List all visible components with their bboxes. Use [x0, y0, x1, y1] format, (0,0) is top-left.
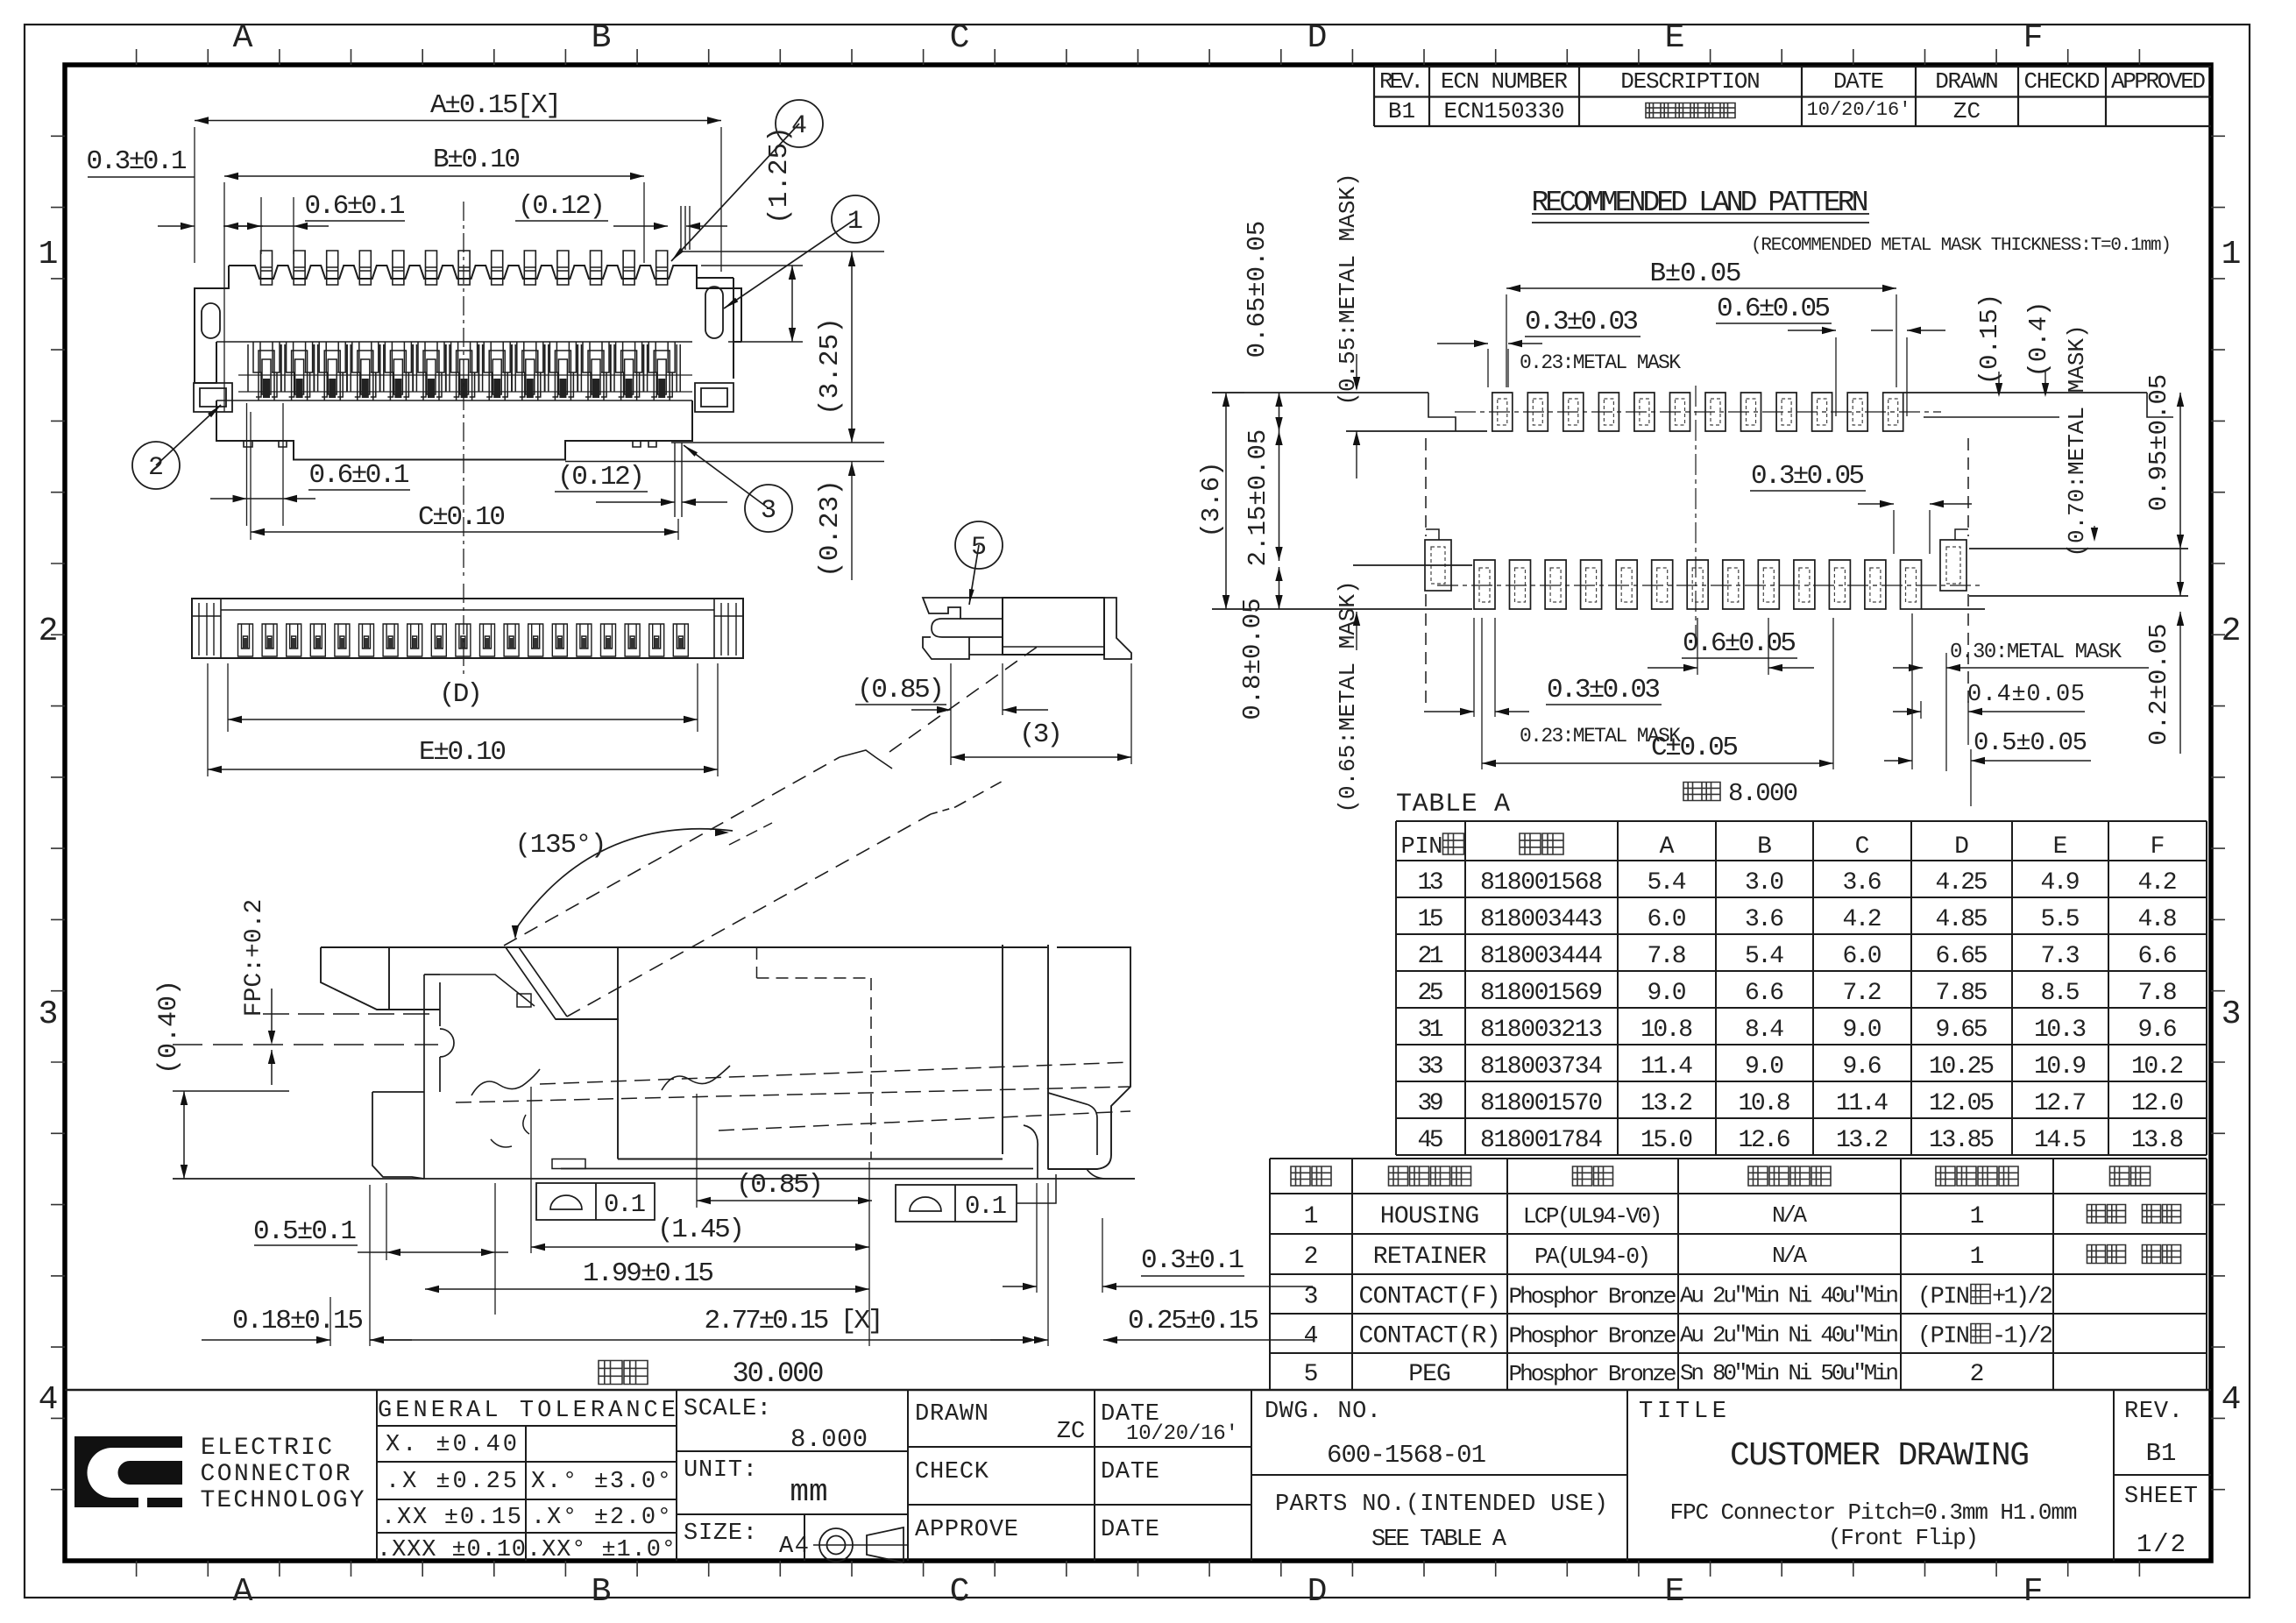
svg-text:(RECOMMENDED METAL MASK THICKN: (RECOMMENDED METAL MASK THICKNESS:T=0.1m…: [1751, 236, 2172, 256]
dim (3.25): [851, 252, 853, 443]
svg-text:E: E: [2053, 833, 2068, 861]
svg-text:A: A: [233, 19, 253, 57]
svg-text:(0.85): (0.85): [857, 675, 945, 705]
svg-text:6.0: 6.0: [1843, 943, 1882, 970]
section latch nub: [517, 994, 531, 1007]
svg-text:10.9: 10.9: [2034, 1053, 2087, 1081]
svg-text:REV.: REV.: [2124, 1399, 2183, 1425]
view2 teeth row: [238, 624, 689, 656]
dim A±0.15[X]: [195, 120, 721, 122]
dim (0.23): [671, 442, 884, 443]
svg-text:0.25±0.15: 0.25±0.15: [1128, 1306, 1259, 1336]
parts header 半品名称: [1389, 1166, 1471, 1186]
section nose block: [372, 1092, 424, 1179]
view3 left bottom: [923, 637, 1003, 659]
svg-text:REV.: REV.: [1379, 68, 1424, 95]
view1 right retainer lug: [695, 383, 733, 412]
svg-text:DESCRIPTION: DESCRIPTION: [1620, 68, 1761, 95]
svg-text:7.8: 7.8: [2138, 980, 2178, 1007]
third angle projection symbol: [819, 1528, 853, 1562]
svg-text:APPROVED: APPROVED: [2111, 68, 2206, 95]
svg-text:4.25: 4.25: [1936, 869, 1988, 897]
svg-text:9.6: 9.6: [1843, 1053, 1882, 1081]
svg-text:9.65: 9.65: [1936, 1017, 1988, 1044]
svg-text:C: C: [950, 19, 970, 57]
svg-text:0.5±0.1: 0.5±0.1: [253, 1216, 357, 1247]
svg-text:1: 1: [1970, 1244, 1985, 1271]
svg-text:E±0.10: E±0.10: [419, 737, 507, 768]
svg-text:CHECK: CHECK: [915, 1459, 989, 1485]
svg-text:4: 4: [39, 1381, 59, 1419]
svg-text:5.4: 5.4: [1648, 869, 1687, 897]
section rear foot: [1087, 1169, 1135, 1179]
view1 right oval slot: [705, 287, 723, 338]
svg-text:6.6: 6.6: [1745, 980, 1784, 1007]
feature frame 2: [896, 1185, 1017, 1222]
svg-text:.X° ±2.0°: .X° ±2.0°: [531, 1505, 671, 1531]
svg-text:10.25: 10.25: [1929, 1053, 1995, 1081]
parts header 标号: [1291, 1166, 1331, 1186]
svg-text:DRAWN: DRAWN: [915, 1401, 989, 1428]
svg-text:(3.6): (3.6): [1197, 461, 1226, 537]
svg-text:D: D: [1307, 1573, 1328, 1611]
svg-text:0.6±0.1: 0.6±0.1: [305, 191, 406, 222]
svg-text:DATE: DATE: [1833, 68, 1884, 95]
svg-text:9.6: 9.6: [2138, 1017, 2178, 1044]
svg-text:RETAINER: RETAINER: [1373, 1244, 1487, 1271]
svg-text:3.0: 3.0: [1745, 869, 1784, 897]
svg-text:SIZE:: SIZE:: [684, 1520, 757, 1547]
svg-text:C: C: [1855, 833, 1870, 861]
svg-text:0.95±0.05: 0.95±0.05: [2144, 374, 2173, 512]
svg-text:0.8±0.05: 0.8±0.05: [1238, 598, 1267, 719]
(135°) arc leader: [517, 829, 733, 927]
view2 teeth dark centers: [244, 638, 248, 648]
svg-text:2: 2: [39, 613, 59, 650]
svg-text:LCP(UL94-V0): LCP(UL94-V0): [1523, 1203, 1663, 1230]
svg-text:(3): (3): [1019, 719, 1063, 750]
land pattern housing dashed outline: [1425, 438, 1427, 536]
view2 inner top line: [221, 609, 714, 611]
svg-text:0.3±0.05: 0.3±0.05: [1751, 461, 1865, 492]
svg-text:ECN150330: ECN150330: [1444, 98, 1565, 124]
view2 bottom edge: [192, 657, 743, 659]
svg-text:(3.25): (3.25): [815, 317, 846, 415]
svg-text:+1)/2: +1)/2: [1992, 1285, 2053, 1311]
svg-text:N/A: N/A: [1772, 1243, 1807, 1269]
svg-text:8.5: 8.5: [2041, 980, 2080, 1007]
svg-text:CONTACT(R): CONTACT(R): [1359, 1323, 1501, 1350]
svg-text:818003734: 818003734: [1480, 1053, 1603, 1081]
svg-text:0.6±0.05: 0.6±0.05: [1683, 628, 1796, 659]
drawn/check/approve cells: [1094, 1390, 1095, 1561]
svg-text:B: B: [592, 1573, 612, 1611]
svg-text:Phosphor Bronze: Phosphor Bronze: [1509, 1284, 1677, 1310]
view1 contact dark tips: [263, 379, 270, 398]
land pattern centerlines: [1455, 411, 1941, 413]
dim B±0.10: [224, 175, 644, 177]
svg-text:TABLE A: TABLE A: [1396, 790, 1510, 819]
svg-text:4.8: 4.8: [2138, 906, 2178, 933]
svg-text:8.4: 8.4: [1745, 1017, 1784, 1044]
svg-text:10/20/16': 10/20/16': [1126, 1422, 1238, 1446]
svg-text:8.000: 8.000: [1728, 779, 1798, 808]
section fpc dashed flat: [173, 1044, 438, 1045]
svg-text:13: 13: [1418, 869, 1444, 897]
svg-text:818001784: 818001784: [1480, 1127, 1603, 1154]
svg-text:.XXX ±0.10: .XXX ±0.10: [377, 1537, 526, 1563]
parts list table: [1270, 1158, 2207, 1159]
view3 left hook: [932, 619, 1003, 637]
svg-text:0.65±0.05: 0.65±0.05: [1243, 221, 1272, 358]
svg-text:SHEET: SHEET: [2124, 1484, 2198, 1510]
svg-text:13.85: 13.85: [1929, 1127, 1995, 1154]
svg-text:DRAWN: DRAWN: [1935, 68, 1999, 95]
svg-text:2: 2: [148, 453, 164, 483]
parts header 备注: [2110, 1166, 2151, 1186]
svg-text:0.3±0.1: 0.3±0.1: [87, 146, 188, 177]
svg-text:13.8: 13.8: [2131, 1127, 2184, 1154]
svg-text:0.5±0.05: 0.5±0.05: [1974, 728, 2087, 757]
view1 contact comb: [216, 342, 692, 400]
svg-text:ZC: ZC: [1953, 98, 1981, 124]
svg-text:1: 1: [2222, 236, 2242, 273]
svg-text:10.8: 10.8: [1641, 1017, 1693, 1044]
land pattern body edge lines: [1212, 392, 1428, 393]
svg-text:0.4±0.05: 0.4±0.05: [1967, 682, 2085, 708]
svg-text:1: 1: [1304, 1203, 1319, 1230]
svg-text:Sn 80"Min Ni 50u"Min: Sn 80"Min Ni 50u"Min: [1680, 1360, 1899, 1386]
view2 left cap lines: [199, 603, 214, 656]
title cell: [2113, 1390, 2115, 1561]
svg-text:21: 21: [1418, 943, 1444, 970]
svg-text:.XX ±0.15: .XX ±0.15: [381, 1505, 521, 1531]
svg-text:CONTACT(F): CONTACT(F): [1359, 1284, 1501, 1311]
section rear jaw: [1048, 1093, 1097, 1155]
svg-text:B1: B1: [1388, 98, 1415, 124]
svg-text:SCALE:: SCALE:: [684, 1396, 771, 1422]
section bottom lip: [552, 1159, 585, 1169]
svg-text:1: 1: [847, 207, 863, 237]
svg-text:DATE: DATE: [1101, 1517, 1159, 1543]
section actuator lever: [321, 947, 1047, 1010]
svg-text:31: 31: [1418, 1017, 1444, 1044]
svg-text:2: 2: [1970, 1361, 1985, 1388]
svg-text:0.23:METAL MASK: 0.23:METAL MASK: [1520, 351, 1681, 374]
svg-text:0.18±0.15: 0.18±0.15: [232, 1306, 364, 1336]
land pattern anchor pads: [1425, 540, 1451, 591]
svg-text:1: 1: [39, 236, 59, 273]
svg-text:E: E: [1665, 19, 1685, 57]
table A header 料号: [1520, 833, 1563, 854]
view1 feet tabs: [244, 441, 656, 447]
svg-text:F: F: [2023, 19, 2044, 57]
svg-text:5.5: 5.5: [2041, 906, 2080, 933]
svg-text:10.8: 10.8: [1739, 1090, 1791, 1117]
svg-text:3.6: 3.6: [1745, 906, 1784, 933]
svg-text:mm: mm: [790, 1474, 827, 1510]
land pattern lower pads: [1474, 560, 1922, 609]
svg-text:F: F: [2151, 833, 2165, 861]
svg-text:0.3±0.03: 0.3±0.03: [1547, 675, 1661, 705]
svg-text:9.0: 9.0: [1648, 980, 1687, 1007]
svg-text:11.4: 11.4: [1836, 1090, 1889, 1117]
view2 right cap lines: [721, 603, 736, 656]
balloon 5: [969, 545, 979, 605]
section rear dashed internals: [756, 947, 758, 978]
svg-text:2: 2: [2222, 613, 2242, 650]
svg-text:(1.25): (1.25): [764, 126, 795, 224]
land pattern upper pads: [1492, 393, 1903, 431]
svg-text:TECHNOLOGY: TECHNOLOGY: [201, 1487, 365, 1514]
svg-text:PIN: PIN: [1401, 834, 1443, 861]
svg-text:X.° ±3.0°: X.° ±3.0°: [531, 1469, 671, 1495]
svg-text:6.6: 6.6: [2138, 943, 2178, 970]
svg-text:CUSTOMER DRAWING: CUSTOMER DRAWING: [1730, 1437, 2030, 1475]
svg-text:(0.4): (0.4): [2024, 301, 2053, 377]
section spring tip 2: [662, 1066, 730, 1090]
dim (1.25): [678, 251, 884, 252]
svg-text:(0.40): (0.40): [154, 980, 184, 1074]
svg-text:(135°): (135°): [515, 830, 607, 861]
svg-text:0.1: 0.1: [965, 1192, 1007, 1221]
view1 terminals row: [261, 251, 668, 285]
svg-text:9.0: 9.0: [1745, 1053, 1784, 1081]
svg-text:30.000: 30.000: [733, 1357, 825, 1390]
svg-text:TITLE: TITLE: [1639, 1399, 1726, 1425]
section spring tip 1: [471, 1069, 540, 1095]
svg-text:3: 3: [761, 496, 776, 526]
svg-text:PA(UL94-0): PA(UL94-0): [1534, 1244, 1651, 1270]
svg-text:A: A: [1660, 833, 1675, 861]
svg-text:B: B: [592, 19, 612, 57]
svg-text:FPC Connector Pitch=0.3mm H1.0: FPC Connector Pitch=0.3mm H1.0mm: [1670, 1499, 2078, 1526]
svg-text:C: C: [950, 1573, 970, 1611]
dwg no / parts no cells: [1626, 1390, 1628, 1561]
svg-text:C±0.10: C±0.10: [418, 502, 506, 533]
view1 left oval slot: [202, 303, 220, 338]
svg-text:818001569: 818001569: [1480, 980, 1603, 1007]
(0.12) triple ticks: [681, 206, 690, 250]
view1 top edge: [229, 266, 733, 279]
svg-text:0.3±0.03: 0.3±0.03: [1525, 307, 1639, 337]
svg-text:3: 3: [1304, 1284, 1319, 1311]
svg-text:DWG. NO.: DWG. NO.: [1265, 1399, 1381, 1425]
svg-text:C±0.05: C±0.05: [1651, 733, 1739, 763]
svg-text:APPROVE: APPROVE: [915, 1517, 1018, 1543]
svg-text:0.6±0.1: 0.6±0.1: [309, 460, 410, 491]
svg-text:4.2: 4.2: [2138, 869, 2178, 897]
view1 centerline: [463, 202, 464, 578]
dim C±0.10: [251, 531, 678, 533]
svg-text:B±0.05: B±0.05: [1650, 259, 1742, 289]
section housing channel: [424, 975, 454, 1179]
svg-text:E: E: [1665, 1573, 1685, 1611]
view3 left top latch: [923, 598, 1003, 619]
svg-text:(0.85): (0.85): [736, 1170, 824, 1201]
svg-text:8.000: 8.000: [790, 1425, 868, 1454]
svg-text:1: 1: [1970, 1203, 1985, 1230]
svg-text:818003213: 818003213: [1480, 1017, 1603, 1044]
svg-text:DATE: DATE: [1101, 1459, 1159, 1485]
view1 right ear: [697, 278, 741, 379]
section rear cover piece: [1047, 945, 1049, 1170]
view1 left retainer lug: [194, 383, 232, 412]
svg-text:ZC: ZC: [1057, 1419, 1085, 1445]
view2 centerline: [463, 584, 464, 675]
svg-text:A: A: [233, 1573, 253, 1611]
svg-text:11.4: 11.4: [1641, 1053, 1693, 1081]
balloon 2: [156, 405, 221, 465]
svg-text:1.99±0.15: 1.99±0.15: [583, 1258, 714, 1289]
svg-text:12.6: 12.6: [1739, 1127, 1791, 1154]
svg-text:(0.12): (0.12): [557, 462, 645, 493]
svg-text:2: 2: [1304, 1244, 1319, 1271]
svg-text:0.6±0.05: 0.6±0.05: [1717, 294, 1831, 324]
label 比例 30.000: [599, 1361, 648, 1385]
view1 left ear: [195, 266, 229, 383]
svg-text:6.65: 6.65: [1936, 943, 1988, 970]
section rear cavity block: [556, 947, 618, 1159]
svg-text:818003444: 818003444: [1480, 943, 1603, 970]
general tolerance table: [376, 1390, 378, 1561]
view3 right foot: [1104, 598, 1131, 659]
section spring lower: [491, 1115, 529, 1147]
svg-text:14.5: 14.5: [2034, 1127, 2087, 1154]
section fpc ribbon end: [840, 750, 892, 769]
svg-text:N/A: N/A: [1772, 1202, 1807, 1229]
parts header 表面处理: [1748, 1166, 1831, 1186]
svg-text:HOUSING: HOUSING: [1380, 1203, 1479, 1230]
svg-text:5: 5: [971, 533, 987, 563]
svg-text:2.15±0.05: 2.15±0.05: [1244, 429, 1272, 567]
parts header 使用数量: [1936, 1166, 2018, 1186]
svg-text:3.6: 3.6: [1843, 869, 1882, 897]
company logo ECT: [74, 1436, 182, 1507]
svg-text:4: 4: [2222, 1381, 2242, 1419]
svg-text:Au 2u"Min Ni 40u"Min: Au 2u"Min Ni 40u"Min: [1680, 1283, 1899, 1309]
svg-text:2.77±0.15 [X]: 2.77±0.15 [X]: [705, 1306, 884, 1336]
svg-text:(0.70:METAL MASK): (0.70:METAL MASK): [2064, 324, 2090, 556]
svg-text:13.2: 13.2: [1836, 1127, 1889, 1154]
section FPC raised dashed lines: [504, 757, 840, 946]
svg-text:(Front Flip): (Front Flip): [1828, 1525, 1979, 1551]
svg-text:33: 33: [1418, 1053, 1444, 1081]
svg-text:4.85: 4.85: [1936, 906, 1988, 933]
revision table: [1374, 66, 2211, 67]
scale unit size cells: [907, 1390, 909, 1561]
svg-text:Au 2u"Min Ni 40u"Min: Au 2u"Min Ni 40u"Min: [1680, 1322, 1899, 1349]
parts header 材质: [1573, 1166, 1613, 1186]
svg-text:GENERAL TOLERANCE: GENERAL TOLERANCE: [378, 1398, 676, 1424]
svg-text:12.0: 12.0: [2131, 1090, 2184, 1117]
svg-text:15.0: 15.0: [1641, 1127, 1693, 1154]
svg-text:(PIN: (PIN: [1917, 1285, 1970, 1311]
svg-text:3: 3: [39, 996, 59, 1033]
svg-text:5.4: 5.4: [1745, 943, 1784, 970]
svg-text:(0.15): (0.15): [1975, 294, 2004, 385]
svg-text:39: 39: [1418, 1090, 1444, 1117]
svg-text:0.2±0.05: 0.2±0.05: [2144, 623, 2173, 745]
svg-text:10.3: 10.3: [2034, 1017, 2087, 1044]
svg-text:Phosphor Bronze: Phosphor Bronze: [1509, 1323, 1677, 1350]
svg-text:7.2: 7.2: [1843, 980, 1882, 1007]
svg-text:D: D: [1307, 19, 1328, 57]
svg-text:FPC:+0.2: FPC:+0.2: [241, 899, 268, 1017]
svg-text:UNIT:: UNIT:: [684, 1457, 757, 1484]
svg-text:12.05: 12.05: [1929, 1090, 1995, 1117]
svg-text:PEG: PEG: [1408, 1361, 1451, 1388]
view3 main block: [1003, 598, 1104, 655]
balloon 4: [671, 124, 799, 261]
section pcb baseline: [173, 1178, 1135, 1180]
table A: [1396, 820, 2207, 822]
svg-text:F: F: [2023, 1573, 2044, 1611]
section actuator chamfer: [506, 947, 619, 1019]
section contact J hook: [1024, 1125, 1038, 1179]
svg-text:12.7: 12.7: [2034, 1090, 2087, 1117]
svg-text:818001568: 818001568: [1480, 869, 1603, 897]
section actuator gap line: [440, 975, 535, 1006]
view2 body: [192, 599, 743, 658]
svg-text:0.1: 0.1: [604, 1190, 646, 1219]
svg-text:6.0: 6.0: [1648, 906, 1687, 933]
svg-text:5: 5: [1304, 1361, 1319, 1388]
svg-text:4.9: 4.9: [2041, 869, 2080, 897]
svg-text:3: 3: [2222, 996, 2242, 1033]
svg-text:B: B: [1757, 833, 1772, 861]
label 比例 8.000: [1683, 783, 1720, 801]
svg-text:B1: B1: [2146, 1439, 2177, 1468]
svg-text:4: 4: [1304, 1323, 1319, 1350]
svg-text:-1)/2: -1)/2: [1992, 1324, 2053, 1350]
revision description 图纸标注更新: [1646, 103, 1735, 118]
svg-text:ECN NUMBER: ECN NUMBER: [1441, 68, 1568, 95]
svg-text:.XX° ±1.0°: .XX° ±1.0°: [527, 1537, 676, 1563]
balloon 1: [724, 219, 855, 308]
rev/sheet cell: [2114, 1474, 2211, 1476]
svg-text:B±0.10: B±0.10: [433, 145, 521, 175]
svg-text:(PIN: (PIN: [1917, 1324, 1970, 1350]
svg-text:0.30:METAL MASK: 0.30:METAL MASK: [1950, 641, 2122, 664]
svg-text:D: D: [1954, 833, 1969, 861]
svg-text:818001570: 818001570: [1480, 1090, 1603, 1117]
svg-text:4.2: 4.2: [1843, 906, 1882, 933]
svg-text:CHECKD: CHECKD: [2024, 68, 2101, 95]
svg-text:A±0.15[X]: A±0.15[X]: [430, 90, 562, 121]
svg-text:CONNECTOR: CONNECTOR: [201, 1461, 351, 1488]
svg-text:1/2: 1/2: [2137, 1530, 2186, 1559]
svg-text:10.2: 10.2: [2131, 1053, 2184, 1081]
svg-text:(0.23): (0.23): [815, 479, 846, 578]
svg-text:Phosphor Bronze: Phosphor Bronze: [1509, 1361, 1677, 1387]
svg-text:(0.12): (0.12): [518, 191, 606, 222]
svg-text:7.85: 7.85: [1936, 980, 1988, 1007]
svg-text:(D): (D): [439, 679, 483, 710]
svg-text:7.3: 7.3: [2041, 943, 2080, 970]
svg-text:25: 25: [1418, 980, 1444, 1007]
svg-text:SEE TABLE A: SEE TABLE A: [1371, 1527, 1507, 1553]
svg-text:818003443: 818003443: [1480, 906, 1603, 933]
svg-text:10/20/16': 10/20/16': [1807, 99, 1911, 121]
svg-text:15: 15: [1418, 906, 1444, 933]
svg-text:7.8: 7.8: [1648, 943, 1687, 970]
view1 bottom outline: [216, 400, 692, 460]
svg-text:0.3±0.1: 0.3±0.1: [1141, 1245, 1244, 1276]
svg-text:13.2: 13.2: [1641, 1090, 1693, 1117]
svg-text:9.0: 9.0: [1843, 1017, 1882, 1044]
feature frame 1: [536, 1183, 655, 1220]
